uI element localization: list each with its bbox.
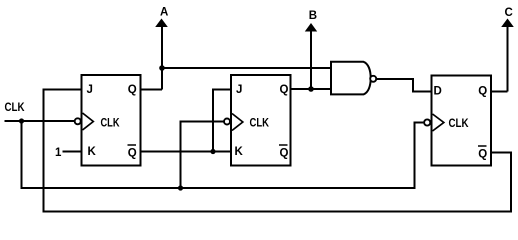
svg-text:Q: Q bbox=[280, 84, 289, 96]
svg-text:Q: Q bbox=[280, 148, 289, 160]
svg-text:CLK: CLK bbox=[101, 118, 121, 130]
svg-text:Q: Q bbox=[128, 84, 137, 96]
svg-text:J: J bbox=[87, 84, 93, 96]
svg-text:CLK: CLK bbox=[449, 118, 470, 130]
svg-text:B: B bbox=[309, 10, 317, 22]
svg-text:K: K bbox=[88, 146, 97, 158]
svg-text:Q: Q bbox=[128, 148, 137, 160]
svg-text:Q: Q bbox=[478, 149, 487, 161]
svg-text:A: A bbox=[160, 7, 168, 19]
svg-text:D: D bbox=[434, 86, 442, 98]
svg-text:J: J bbox=[236, 84, 242, 96]
svg-text:K: K bbox=[235, 146, 244, 158]
svg-text:CLK: CLK bbox=[250, 118, 270, 130]
svg-text:1: 1 bbox=[55, 147, 62, 159]
svg-text:Q: Q bbox=[478, 86, 487, 98]
svg-text:CLK: CLK bbox=[5, 102, 26, 114]
svg-text:C: C bbox=[505, 7, 513, 19]
